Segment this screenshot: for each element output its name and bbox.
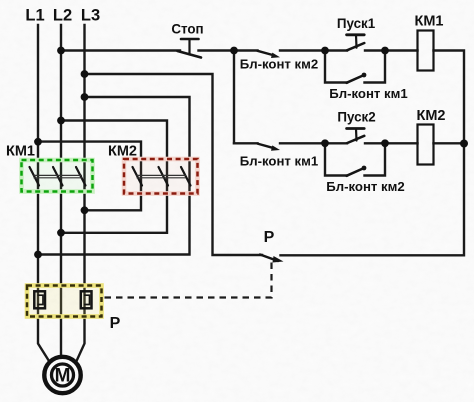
svg-text:Пуск2: Пуск2 bbox=[337, 110, 375, 125]
svg-text:L3: L3 bbox=[81, 7, 100, 25]
svg-text:Бл-конт км1: Бл-конт км1 bbox=[329, 86, 408, 101]
svg-text:L1: L1 bbox=[25, 7, 44, 25]
svg-text:КМ1: КМ1 bbox=[6, 144, 35, 160]
svg-text:Пуск1: Пуск1 bbox=[337, 16, 376, 31]
svg-text:КМ1: КМ1 bbox=[415, 14, 444, 30]
svg-text:Стоп: Стоп bbox=[171, 22, 203, 37]
svg-text:Бл-конт км2: Бл-конт км2 bbox=[326, 179, 405, 194]
svg-text:Р: Р bbox=[110, 315, 121, 332]
svg-text:КМ2: КМ2 bbox=[108, 144, 137, 160]
svg-text:L2: L2 bbox=[53, 7, 72, 25]
svg-text:М: М bbox=[55, 366, 71, 387]
svg-text:Р: Р bbox=[264, 229, 275, 246]
svg-text:Бл-конт км2: Бл-конт км2 bbox=[240, 57, 319, 72]
svg-text:Бл-конт км1: Бл-конт км1 bbox=[240, 154, 319, 169]
svg-text:КМ2: КМ2 bbox=[417, 108, 446, 124]
